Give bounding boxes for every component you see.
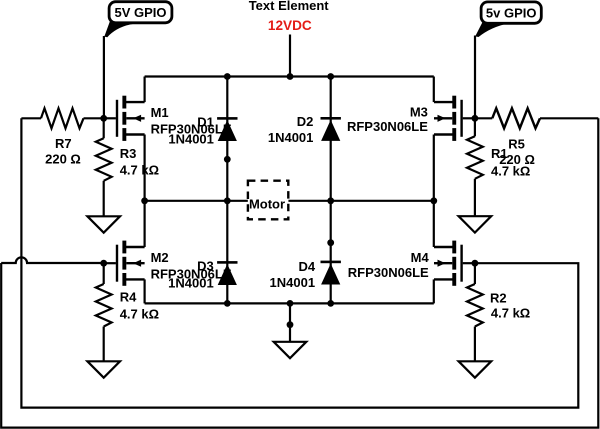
- svg-text:5v GPIO: 5v GPIO: [486, 5, 537, 20]
- wire M2 source to ground rail: [144, 279, 146, 303]
- junction M2 gate node: [100, 260, 107, 267]
- junction motor-right / M3 source: [430, 197, 437, 204]
- svg-text:R7: R7: [55, 136, 72, 151]
- resistor R5: [475, 108, 598, 128]
- wire M2 gate segment with hop over inner loop: [1, 257, 104, 263]
- svg-text:R2: R2: [490, 290, 507, 305]
- transistor M4 (mirrored): [434, 241, 475, 286]
- resistor R1: [467, 118, 483, 216]
- svg-text:M4: M4: [411, 250, 430, 265]
- wire M4 source to ground rail: [433, 279, 435, 303]
- svg-text:Text Element: Text Element: [249, 0, 330, 13]
- junction ground rail / D3: [224, 300, 231, 307]
- svg-text:4.7 kΩ: 4.7 kΩ: [120, 162, 159, 177]
- svg-text:1N4001: 1N4001: [270, 275, 316, 290]
- wire left diode column (D1/D3): [226, 77, 228, 304]
- junction ground rail / center ground: [287, 300, 294, 307]
- diode D3: [217, 261, 237, 285]
- junction center ground stub: [287, 321, 294, 328]
- wire left GPIO down to M1 gate node: [103, 36, 105, 118]
- wire M1 source to motor left node: [144, 135, 146, 201]
- motor (dashed box): [248, 181, 288, 220]
- svg-text:Motor: Motor: [249, 197, 285, 212]
- wire M3 source to motor right node: [433, 135, 435, 201]
- svg-text:220 Ω: 220 Ω: [45, 152, 81, 167]
- resistor R7: [21, 108, 103, 128]
- svg-text:12VDC: 12VDC: [268, 18, 312, 33]
- wire right GPIO down to M3 gate node: [474, 36, 476, 119]
- transistor M2: [104, 241, 145, 286]
- wire center ground stub: [289, 303, 291, 347]
- diode D2: [321, 117, 341, 141]
- wire motor right segment: [288, 200, 434, 202]
- wire right diode column (D2/D4): [330, 77, 332, 304]
- svg-text:4.7 kΩ: 4.7 kΩ: [491, 163, 530, 178]
- diode D1: [217, 117, 237, 141]
- ground below R1: [459, 216, 492, 232]
- svg-text:M1: M1: [151, 105, 169, 120]
- svg-text:4.7 kΩ: 4.7 kΩ: [120, 307, 159, 322]
- ground below R4: [87, 361, 120, 377]
- svg-text:1N4001: 1N4001: [268, 130, 314, 145]
- junction motor-left / M1 source: [141, 197, 148, 204]
- svg-text:R5: R5: [508, 136, 525, 151]
- svg-text:4.7 kΩ: 4.7 kΩ: [491, 305, 530, 320]
- diode D4: [321, 261, 341, 285]
- ground center: [274, 342, 307, 358]
- transistor M1: [104, 96, 145, 141]
- wire +12V top rail: [145, 75, 434, 77]
- wire R7 to M4 gate (inner loop): [21, 118, 578, 407]
- svg-text:D2: D2: [297, 114, 314, 129]
- wire motor left segment: [145, 200, 248, 202]
- wire M1 drain to top rail: [144, 77, 146, 103]
- junction D4 cathode node: [327, 239, 334, 246]
- wire M4 drain to motor right node: [433, 201, 435, 247]
- junction supply / top rail: [287, 73, 294, 80]
- svg-text:M3: M3: [410, 104, 428, 119]
- junction motor-left / D1-D3 column: [224, 197, 231, 204]
- junction ground rail / D4: [327, 300, 334, 307]
- svg-text:RFP30N06LE: RFP30N06LE: [347, 119, 428, 134]
- junction M4 gate node: [472, 260, 479, 267]
- junction motor-right / D2-D4 column: [327, 197, 334, 204]
- junction M3 gate node: [472, 115, 479, 122]
- svg-text:1N4001: 1N4001: [168, 132, 214, 147]
- svg-text:RFP30N06LE: RFP30N06LE: [151, 267, 232, 282]
- wire 12VDC supply drop: [289, 35, 291, 77]
- ground below R2: [459, 361, 492, 377]
- resistor R3: [96, 118, 112, 216]
- svg-text:R4: R4: [120, 290, 137, 305]
- svg-text:M2: M2: [151, 250, 169, 265]
- junction D2 cathode on top rail: [327, 73, 334, 80]
- transistor M3 (mirrored): [434, 96, 475, 141]
- svg-text:R3: R3: [120, 146, 137, 161]
- svg-text:D4: D4: [298, 259, 315, 274]
- junction D1 cathode on top rail: [224, 73, 231, 80]
- ground below R3: [87, 216, 120, 232]
- resistor R4: [96, 263, 112, 361]
- wire ground rail (bottom): [145, 302, 434, 304]
- wire M2 drain to motor left node: [144, 201, 146, 247]
- flag 5V GPIO (left): [104, 2, 172, 38]
- svg-text:5V GPIO: 5V GPIO: [114, 5, 166, 20]
- resistor R2: [467, 263, 483, 361]
- svg-text:RFP30N06LE: RFP30N06LE: [348, 265, 429, 280]
- junction M1 gate node: [100, 115, 107, 122]
- flag 5v GPIO (right): [475, 2, 541, 37]
- svg-text:D1: D1: [197, 114, 214, 129]
- svg-text:R1: R1: [491, 146, 508, 161]
- wire M3 drain to top rail: [433, 77, 435, 103]
- junction D1 anode: [224, 156, 231, 163]
- wire R5 to M2 gate (outer loop): [1, 118, 598, 427]
